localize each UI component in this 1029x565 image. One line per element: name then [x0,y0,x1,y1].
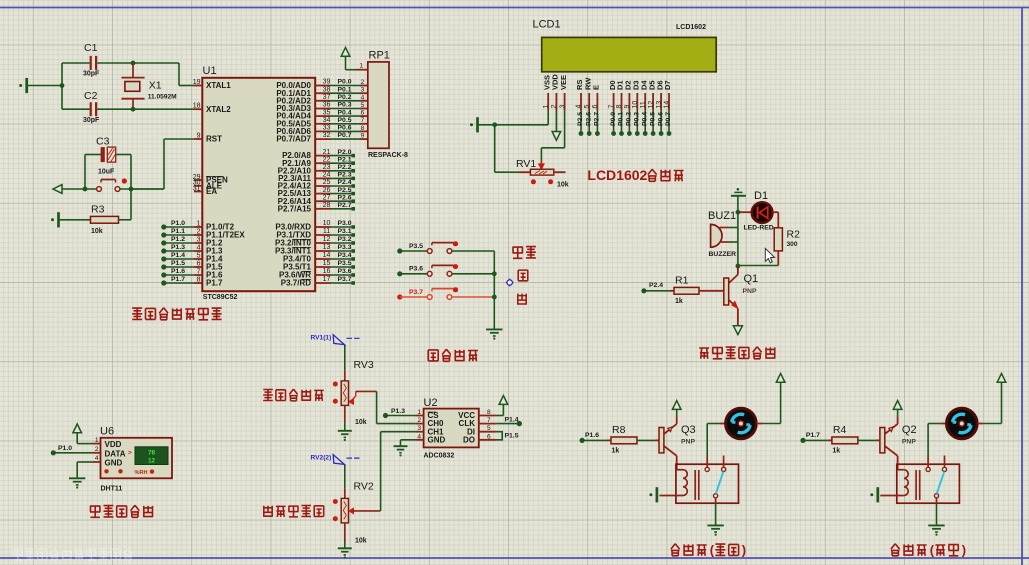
svg-text:4: 4 [576,105,583,109]
svg-text:P0.2: P0.2 [626,112,633,126]
svg-text:P1.3: P1.3 [171,244,185,251]
svg-text:12: 12 [648,101,655,109]
svg-text:35: 35 [323,109,331,116]
svg-text:5: 5 [487,425,491,432]
svg-text:19: 19 [193,79,201,86]
svg-text:P2.6: P2.6 [338,194,352,201]
svg-text:P3.7: P3.7 [409,289,423,296]
svg-text:RV2: RV2 [354,481,374,493]
svg-text:P1.4: P1.4 [171,252,185,259]
svg-text:12: 12 [148,458,156,465]
svg-text:P1.7: P1.7 [171,276,185,283]
svg-text:P1.5: P1.5 [505,433,519,440]
svg-text:Q1: Q1 [744,273,759,285]
svg-text:P0.4: P0.4 [338,109,352,116]
svg-text:RESPACK-8: RESPACK-8 [368,152,408,159]
svg-text:GND: GND [428,435,446,444]
svg-text:PNP: PNP [743,288,757,295]
svg-text:P0.4: P0.4 [641,112,648,126]
svg-text:30pF: 30pF [83,117,100,124]
svg-text:28: 28 [323,202,331,209]
svg-text:P3.6: P3.6 [338,268,352,275]
svg-text:16: 16 [323,268,331,275]
svg-text:U6: U6 [100,426,114,438]
svg-text:11: 11 [323,228,330,235]
svg-text:): ) [742,543,746,558]
svg-text:8: 8 [197,277,201,284]
svg-text:D1: D1 [754,190,768,202]
svg-text:C2: C2 [84,90,98,102]
svg-text:E: E [592,85,601,90]
svg-text:P0.3: P0.3 [634,112,641,126]
svg-text:PNP: PNP [681,439,695,446]
svg-text:P1.1: P1.1 [171,228,185,235]
svg-text:(: ( [930,543,935,558]
svg-text:9: 9 [624,105,631,109]
svg-text:P0.3: P0.3 [338,102,352,109]
svg-text:6: 6 [592,105,599,109]
svg-text:4: 4 [361,94,365,101]
svg-text:R1: R1 [675,275,689,287]
svg-text:P0.7/AD7: P0.7/AD7 [276,135,311,144]
svg-text:P0.5: P0.5 [649,112,656,126]
svg-text:7: 7 [608,105,615,109]
svg-text:8: 8 [487,409,491,416]
svg-text:PNP: PNP [902,439,916,446]
svg-text:P1.4: P1.4 [505,417,519,424]
svg-text:Q2: Q2 [902,424,917,436]
svg-text:DO: DO [463,435,475,444]
svg-text:P3.3: P3.3 [338,244,352,251]
svg-text:1: 1 [543,105,550,109]
svg-text:10: 10 [323,220,331,227]
svg-text:14: 14 [323,252,331,259]
svg-text:ADC0832: ADC0832 [424,453,455,460]
svg-text:P1.3: P1.3 [391,408,405,415]
svg-text:P2.5: P2.5 [577,112,584,126]
svg-text:7: 7 [197,269,201,276]
svg-text:2: 2 [417,417,421,424]
svg-text:3: 3 [559,105,566,109]
svg-text:P3.1: P3.1 [338,228,352,235]
svg-text:3: 3 [197,237,201,244]
svg-text:34: 34 [323,117,331,124]
svg-text:BUZ1: BUZ1 [708,210,736,222]
svg-text:C3: C3 [96,136,110,148]
svg-text:9: 9 [197,133,201,140]
svg-text:300: 300 [787,241,798,248]
svg-text:EA: EA [206,187,217,196]
svg-text:RST: RST [206,135,222,144]
svg-text:R3: R3 [91,204,105,216]
svg-text:10k: 10k [355,538,367,545]
svg-text:P1.0: P1.0 [58,445,72,452]
svg-text:): ) [962,543,966,558]
svg-text:24: 24 [323,172,331,179]
svg-text:8: 8 [616,105,623,109]
svg-text:2: 2 [197,229,201,236]
svg-text:6: 6 [487,433,491,440]
svg-text:2: 2 [551,105,558,109]
svg-text:31: 31 [193,185,201,192]
svg-text:P1.7: P1.7 [206,279,223,288]
svg-text:13: 13 [656,101,663,109]
svg-text:RV3: RV3 [354,359,374,371]
svg-text:P3.6: P3.6 [409,266,423,273]
svg-text:1: 1 [95,437,99,444]
svg-text:P3.5: P3.5 [338,260,352,267]
svg-text:P2.4: P2.4 [649,282,663,289]
svg-text:25: 25 [323,179,331,186]
svg-text:R4: R4 [833,424,847,436]
svg-text:18: 18 [193,103,201,110]
svg-text:X1: X1 [149,80,162,92]
svg-text:27: 27 [323,194,331,201]
svg-text:P0.0: P0.0 [610,112,617,126]
svg-text:78: 78 [148,449,156,456]
svg-text:8: 8 [361,125,365,132]
svg-text:P1.7: P1.7 [806,432,820,439]
svg-text:17: 17 [323,276,331,283]
svg-text:GND: GND [105,458,123,467]
svg-text:36: 36 [323,102,331,109]
svg-text:5: 5 [361,102,365,109]
svg-text:1k: 1k [612,448,620,455]
svg-text:DHT11: DHT11 [101,486,123,493]
svg-text:1: 1 [197,221,201,228]
svg-text:2: 2 [361,79,365,86]
svg-text:38: 38 [323,86,331,93]
svg-text:STC89C52: STC89C52 [203,294,238,301]
svg-text:P1.0: P1.0 [171,220,185,227]
svg-text:14: 14 [664,101,671,109]
svg-text:33: 33 [323,125,331,132]
svg-text:DATA: DATA [105,449,126,458]
svg-text:P1.2: P1.2 [171,236,185,243]
svg-text:BUZZER: BUZZER [709,251,737,258]
svg-text:P2.0: P2.0 [338,149,352,156]
svg-text:R2: R2 [787,229,801,241]
svg-text:9: 9 [361,133,365,140]
svg-text:P0.6: P0.6 [338,125,352,132]
svg-text:U1: U1 [203,65,217,77]
svg-text:15: 15 [323,260,331,267]
svg-text:U2: U2 [424,397,438,409]
svg-text:26: 26 [323,187,331,194]
svg-text:P2.2: P2.2 [338,164,352,171]
svg-text:1k: 1k [832,448,840,455]
svg-text:6: 6 [197,261,201,268]
svg-text:P0.0: P0.0 [338,79,352,86]
svg-text:10k: 10k [355,419,367,426]
svg-text:RV1(1): RV1(1) [311,335,332,342]
svg-text:R8: R8 [612,424,626,436]
svg-text:P1.6: P1.6 [585,432,599,439]
svg-text:P0.1: P0.1 [338,86,352,93]
svg-text:P2.1: P2.1 [338,156,352,163]
svg-text:P2.7: P2.7 [338,202,352,209]
svg-text:P2.3: P2.3 [338,172,352,179]
svg-text:RV1: RV1 [516,158,536,170]
svg-text:>: > [128,450,132,457]
svg-text:LCD1: LCD1 [533,19,561,31]
svg-text:1k: 1k [675,298,683,305]
svg-text:12: 12 [323,236,331,243]
svg-text:P2.5: P2.5 [338,187,352,194]
svg-text:RV2(2): RV2(2) [311,455,332,462]
svg-text:C1: C1 [84,42,98,54]
svg-text:7: 7 [487,417,491,424]
svg-text:23: 23 [323,164,331,171]
svg-text:3: 3 [417,425,421,432]
svg-text:4: 4 [417,433,421,440]
svg-text:4: 4 [95,455,99,462]
svg-text:P3.7/RD: P3.7/RD [281,279,311,288]
svg-text:XTAL1: XTAL1 [206,81,231,90]
svg-text:11: 11 [640,101,647,108]
svg-text:22: 22 [323,156,331,163]
svg-text:P2.7: P2.7 [594,112,601,126]
svg-text:5: 5 [584,105,591,109]
svg-text:7: 7 [361,117,365,124]
svg-text:1: 1 [417,409,421,416]
svg-text:10k: 10k [91,228,103,235]
svg-text:P0.1: P0.1 [618,112,625,126]
svg-text:P1.6: P1.6 [171,268,185,275]
svg-text:RP1: RP1 [369,50,390,62]
svg-text:P2.4: P2.4 [338,179,352,186]
svg-text:P0.7: P0.7 [665,112,672,126]
svg-text:D7: D7 [663,80,672,90]
svg-text:P3.7: P3.7 [338,276,352,283]
svg-text:P2.7/A15: P2.7/A15 [278,204,312,213]
svg-text:LED-RED: LED-RED [744,225,774,232]
svg-text:%RH: %RH [135,470,148,476]
svg-text:P2.6: P2.6 [585,112,592,126]
svg-text:39: 39 [323,79,331,86]
svg-text:10k: 10k [557,182,569,189]
svg-text:1: 1 [360,62,364,69]
svg-text:P0.2: P0.2 [338,94,352,101]
svg-text:2: 2 [95,446,99,453]
svg-text:LCD1602: LCD1602 [587,167,647,183]
svg-text:P3.0: P3.0 [338,220,352,227]
svg-text:21: 21 [323,149,331,156]
svg-text:10: 10 [632,101,639,109]
svg-text:30pF: 30pF [83,71,100,78]
svg-text:XTAL2: XTAL2 [206,105,231,114]
svg-text:13: 13 [323,244,331,251]
svg-text:37: 37 [323,94,331,101]
svg-text:P1.5: P1.5 [171,260,185,267]
svg-text:6: 6 [361,110,365,117]
svg-text:P0.6: P0.6 [657,112,664,126]
svg-text:(: ( [710,543,715,558]
svg-text:P3.4: P3.4 [338,252,352,259]
svg-text:VDD: VDD [105,440,122,449]
svg-text:5: 5 [197,253,201,260]
svg-text:P0.7: P0.7 [338,132,352,139]
svg-text:4: 4 [197,245,201,252]
svg-text:P3.2: P3.2 [338,236,352,243]
svg-text:VEE: VEE [559,75,568,90]
svg-text:P0.5: P0.5 [338,117,352,124]
svg-text:3: 3 [361,87,365,94]
svg-text:32: 32 [323,132,331,139]
svg-text:Q3: Q3 [681,424,696,436]
svg-text:LCD1602: LCD1602 [676,24,706,31]
svg-text:11.0592M: 11.0592M [148,94,177,101]
svg-text:P3.5: P3.5 [409,243,423,250]
svg-text:10uF: 10uF [98,169,115,176]
